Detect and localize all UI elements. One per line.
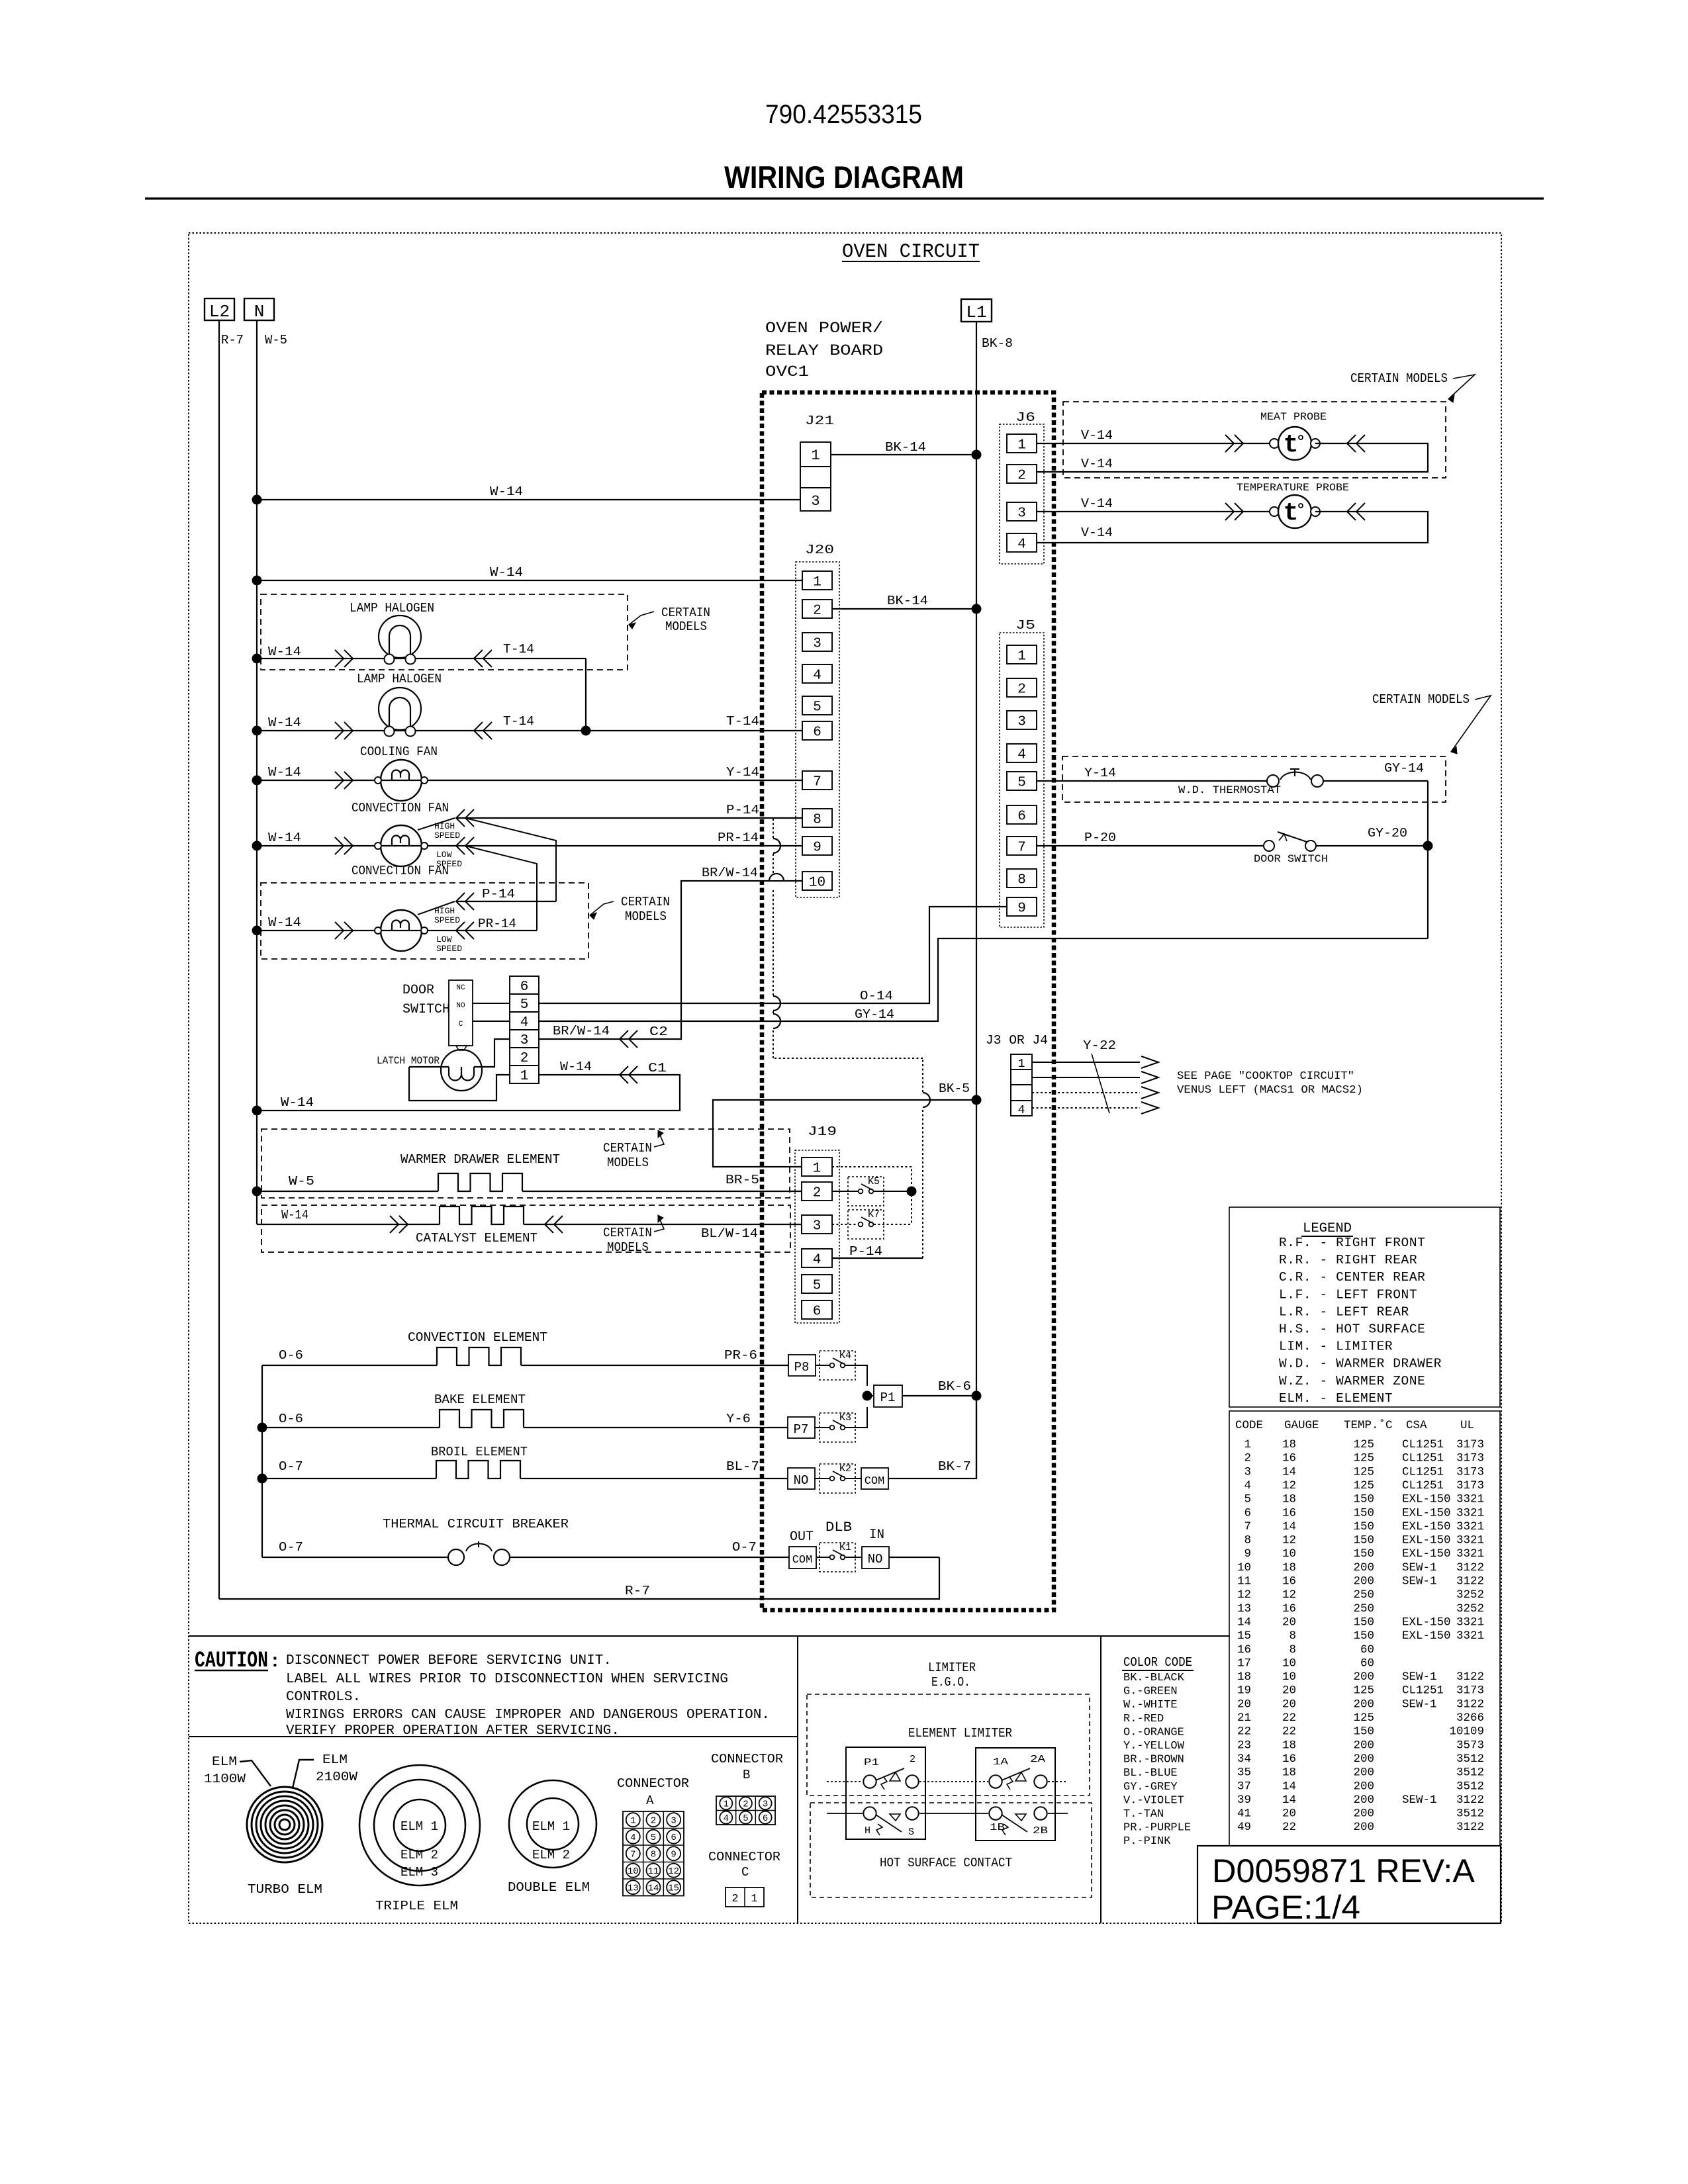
svg-text:P-14: P-14 bbox=[482, 887, 515, 901]
document number box bbox=[1197, 1846, 1501, 1923]
svg-text:125: 125 bbox=[1353, 1438, 1374, 1451]
svg-text:SWITCH: SWITCH bbox=[402, 1002, 450, 1017]
svg-text:35: 35 bbox=[1237, 1766, 1251, 1780]
svg-text:NO: NO bbox=[794, 1473, 809, 1488]
svg-text:1: 1 bbox=[1017, 438, 1026, 453]
svg-text:t: t bbox=[1284, 431, 1299, 459]
svg-text:COM: COM bbox=[792, 1554, 813, 1567]
svg-text:J21: J21 bbox=[805, 414, 834, 428]
node L2 bbox=[205, 298, 234, 320]
svg-text:P1: P1 bbox=[864, 1757, 879, 1768]
svg-text:3122: 3122 bbox=[1456, 1670, 1484, 1684]
svg-text:D0059871 REV:A: D0059871 REV:A bbox=[1212, 1852, 1476, 1889]
svg-text:3321: 3321 bbox=[1456, 1520, 1484, 1533]
connector J20 pin 8 bbox=[802, 809, 832, 827]
wire L1 BK-8 vertical bbox=[976, 322, 977, 1479]
connector J20 pin 6 bbox=[802, 721, 832, 740]
junction bake on feeder bbox=[258, 1423, 267, 1433]
svg-text:6: 6 bbox=[813, 725, 821, 741]
svg-text:BROIL ELEMENT: BROIL ELEMENT bbox=[431, 1445, 528, 1459]
svg-text:6: 6 bbox=[763, 1813, 768, 1824]
wire BK-6 P1 to L1 bbox=[902, 1395, 976, 1396]
svg-text:9: 9 bbox=[1017, 901, 1026, 917]
svg-text:4: 4 bbox=[813, 1253, 821, 1268]
svg-text:BR.-BROWN: BR.-BROWN bbox=[1123, 1754, 1184, 1766]
chevron connector T-14 lamp 1 bbox=[474, 650, 483, 667]
svg-text:SPEED: SPEED bbox=[434, 831, 460, 841]
svg-text:SEW-1: SEW-1 bbox=[1402, 1794, 1437, 1807]
chevron connector cooling fan bbox=[335, 772, 344, 789]
junction W-14 on N bbox=[252, 654, 262, 664]
svg-text:DISCONNECT POWER BEFORE SERVIC: DISCONNECT POWER BEFORE SERVICING UNIT. bbox=[286, 1653, 612, 1668]
connector J19 pin 5 bbox=[802, 1275, 832, 1293]
svg-text:K1: K1 bbox=[839, 1542, 851, 1553]
svg-text:2A: 2A bbox=[1030, 1754, 1045, 1765]
svg-text:SEW-1: SEW-1 bbox=[1402, 1561, 1437, 1574]
door switch body box bbox=[449, 980, 473, 1046]
svg-text:BK-6: BK-6 bbox=[938, 1379, 971, 1394]
svg-text:2: 2 bbox=[910, 1754, 915, 1765]
svg-text:GY-14: GY-14 bbox=[855, 1007, 894, 1022]
junction W-14 return on N bbox=[252, 1106, 262, 1116]
svg-text:11: 11 bbox=[648, 1866, 659, 1877]
svg-text:NC: NC bbox=[456, 984, 465, 992]
svg-text:NO: NO bbox=[868, 1552, 883, 1567]
svg-text:200: 200 bbox=[1353, 1780, 1374, 1793]
svg-text:19: 19 bbox=[1237, 1684, 1251, 1698]
svg-text:O-6: O-6 bbox=[279, 1412, 303, 1426]
svg-text:L1: L1 bbox=[966, 302, 986, 322]
svg-text:10109: 10109 bbox=[1449, 1725, 1484, 1739]
junction W-14 on N bbox=[252, 776, 262, 786]
svg-text:HIGH: HIGH bbox=[434, 821, 455, 831]
svg-text:8: 8 bbox=[1244, 1534, 1251, 1547]
svg-text:150: 150 bbox=[1353, 1629, 1374, 1643]
wire high speed tap fan 2 bbox=[418, 901, 455, 915]
svg-text:8: 8 bbox=[1017, 873, 1026, 888]
svg-text:1: 1 bbox=[1017, 649, 1026, 664]
svg-text:CL1251: CL1251 bbox=[1402, 1438, 1444, 1451]
svg-text:2100W: 2100W bbox=[316, 1770, 358, 1784]
svg-text:R.R. - RIGHT REAR: R.R. - RIGHT REAR bbox=[1279, 1253, 1417, 1267]
svg-text:10: 10 bbox=[1282, 1670, 1296, 1684]
svg-text:W.D. - WARMER DRAWER: W.D. - WARMER DRAWER bbox=[1279, 1357, 1442, 1371]
svg-text:3573: 3573 bbox=[1456, 1739, 1484, 1752]
svg-text:Y.-YELLOW: Y.-YELLOW bbox=[1123, 1740, 1185, 1752]
svg-text:18: 18 bbox=[1282, 1438, 1296, 1451]
svg-text:3: 3 bbox=[1017, 506, 1026, 522]
svg-text:W-14: W-14 bbox=[281, 1095, 314, 1110]
wire W-14 from N to J20 pin 1 bbox=[257, 580, 802, 581]
svg-text:22: 22 bbox=[1282, 1821, 1296, 1834]
svg-text:6: 6 bbox=[671, 1833, 676, 1843]
svg-text:PR-6: PR-6 bbox=[724, 1348, 757, 1363]
junction W-14 on N bbox=[252, 726, 262, 736]
wire BK-5 J19 pin 1 to L1 bbox=[713, 1100, 976, 1167]
svg-text:2: 2 bbox=[1244, 1452, 1251, 1465]
wire latch motor left terminal bbox=[409, 1066, 449, 1068]
svg-text:200: 200 bbox=[1353, 1794, 1374, 1807]
svg-text:CONNECTOR: CONNECTOR bbox=[708, 1850, 780, 1864]
svg-text:3: 3 bbox=[520, 1033, 529, 1048]
svg-text:CERTAIN: CERTAIN bbox=[661, 606, 710, 620]
junction W-14 on N bbox=[252, 495, 262, 505]
svg-text:J19: J19 bbox=[808, 1124, 837, 1139]
wire K5 output to node bbox=[874, 1191, 912, 1192]
certain models dashed box meat probe bbox=[1063, 402, 1446, 478]
svg-text:22: 22 bbox=[1282, 1711, 1296, 1725]
svg-text:GY.-GREY: GY.-GREY bbox=[1123, 1781, 1178, 1794]
svg-text:IN: IN bbox=[869, 1527, 884, 1543]
wire BK-14 from J20 pin 2 to L1 bbox=[832, 608, 976, 610]
svg-text:CONTROLS.: CONTROLS. bbox=[286, 1690, 361, 1705]
svg-text:CL1251: CL1251 bbox=[1402, 1479, 1444, 1492]
svg-text:J20: J20 bbox=[805, 543, 834, 557]
svg-text:1: 1 bbox=[1018, 1058, 1025, 1071]
svg-text:4: 4 bbox=[1244, 1479, 1251, 1492]
svg-text:150: 150 bbox=[1353, 1615, 1374, 1629]
svg-text:790.42553315: 790.42553315 bbox=[765, 100, 922, 129]
junction T-14 lines join bbox=[581, 726, 591, 736]
svg-text:W.-WHITE: W.-WHITE bbox=[1123, 1699, 1178, 1711]
wire V-14 meat probe return to J6 pin 2 bbox=[1037, 443, 1428, 472]
svg-text:LIMITER: LIMITER bbox=[928, 1661, 976, 1675]
svg-text:P.-PINK: P.-PINK bbox=[1123, 1835, 1171, 1848]
svg-text:OVC1: OVC1 bbox=[765, 363, 809, 381]
svg-text:V.-VIOLET: V.-VIOLET bbox=[1123, 1794, 1184, 1807]
certain models dashed box catalyst bbox=[261, 1205, 790, 1252]
svg-text:22: 22 bbox=[1237, 1725, 1251, 1739]
svg-text:3: 3 bbox=[813, 1219, 821, 1234]
svg-text:3321: 3321 bbox=[1456, 1615, 1484, 1629]
svg-text:37: 37 bbox=[1237, 1780, 1251, 1793]
svg-text:14: 14 bbox=[1237, 1615, 1251, 1629]
svg-text:4: 4 bbox=[724, 1813, 729, 1824]
svg-text:3173: 3173 bbox=[1456, 1465, 1484, 1479]
svg-text:WIRINGS ERRORS CAN CAUSE IMPRO: WIRINGS ERRORS CAN CAUSE IMPROPER AND DA… bbox=[286, 1707, 770, 1723]
svg-text:8: 8 bbox=[651, 1850, 656, 1860]
svg-text:39: 39 bbox=[1237, 1794, 1251, 1807]
svg-text:TRIPLE ELM: TRIPLE ELM bbox=[375, 1899, 458, 1913]
svg-text:3: 3 bbox=[763, 1799, 768, 1810]
svg-text:2: 2 bbox=[813, 604, 821, 619]
svg-text:ELM 2: ELM 2 bbox=[532, 1848, 570, 1862]
svg-text:16: 16 bbox=[1282, 1752, 1296, 1766]
svg-text:CODE: CODE bbox=[1235, 1419, 1263, 1432]
svg-text:TEMP.˚C: TEMP.˚C bbox=[1344, 1418, 1393, 1432]
svg-text:MODELS: MODELS bbox=[607, 1240, 649, 1255]
svg-text:LATCH MOTOR: LATCH MOTOR bbox=[377, 1055, 440, 1067]
svg-text:200: 200 bbox=[1353, 1575, 1374, 1588]
svg-text:BK-14: BK-14 bbox=[885, 440, 926, 455]
junction BK-14 on L1 bbox=[972, 604, 982, 614]
chevron connector convection fan 2 bbox=[335, 922, 344, 939]
svg-text:PR-14: PR-14 bbox=[478, 917, 516, 931]
thermal circuit breaker symbol bbox=[448, 1549, 464, 1565]
svg-text:200: 200 bbox=[1353, 1807, 1374, 1821]
svg-text:BAKE ELEMENT: BAKE ELEMENT bbox=[434, 1392, 526, 1407]
svg-text:12: 12 bbox=[668, 1866, 679, 1877]
svg-text:9: 9 bbox=[813, 841, 821, 856]
svg-text:EXL-150: EXL-150 bbox=[1402, 1520, 1451, 1533]
svg-text:125: 125 bbox=[1353, 1684, 1374, 1698]
svg-text:18: 18 bbox=[1282, 1766, 1296, 1780]
wire W-14 cooling fan line to J20 pin 7 Y-14 bbox=[257, 780, 802, 781]
wire W-5 warmer drawer element to J19 pin 2 bbox=[257, 1191, 438, 1192]
svg-text:3122: 3122 bbox=[1456, 1575, 1484, 1588]
svg-text:PR.-PURPLE: PR.-PURPLE bbox=[1123, 1822, 1191, 1835]
wire Y-14 J5 pin 5 to thermostat bbox=[1037, 780, 1267, 782]
section divider vertical left bbox=[797, 1636, 798, 1923]
wire W-14 catalyst element to J19 pin 3 bbox=[257, 1224, 440, 1225]
svg-text:1: 1 bbox=[811, 447, 820, 464]
wire V-14 temperature probe return to J6 pin 4 bbox=[1037, 512, 1428, 543]
meat probe symbol bbox=[1270, 439, 1279, 448]
section divider horizontal bbox=[189, 1635, 1229, 1637]
svg-text:EXL-150: EXL-150 bbox=[1402, 1629, 1451, 1643]
svg-text:CERTAIN MODELS: CERTAIN MODELS bbox=[1350, 371, 1448, 386]
svg-text:14: 14 bbox=[648, 1884, 659, 1894]
svg-text:EXL-150: EXL-150 bbox=[1402, 1615, 1451, 1629]
svg-text:2B: 2B bbox=[1033, 1825, 1048, 1837]
svg-text:SPEED: SPEED bbox=[436, 944, 462, 954]
svg-text:C2: C2 bbox=[649, 1024, 668, 1039]
wire W-14 C1 from pin 1 return to N bbox=[257, 1075, 680, 1111]
svg-text:MODELS: MODELS bbox=[607, 1156, 649, 1170]
svg-text:R-7: R-7 bbox=[221, 333, 244, 347]
svg-text:CERTAIN: CERTAIN bbox=[621, 895, 670, 909]
svg-text:E.G.O.: E.G.O. bbox=[931, 1675, 970, 1690]
junction BK-6 on L1 bbox=[972, 1391, 982, 1401]
svg-text:4: 4 bbox=[813, 668, 821, 684]
OVC1 board dashed border bbox=[762, 392, 1054, 1610]
svg-text:60: 60 bbox=[1360, 1643, 1374, 1657]
svg-text:BR/W-14: BR/W-14 bbox=[702, 866, 758, 880]
svg-text:BK-7: BK-7 bbox=[938, 1459, 971, 1474]
wire N W-5 vertical bbox=[256, 320, 258, 1224]
svg-text:W-14: W-14 bbox=[490, 484, 523, 499]
relay K4 bbox=[816, 1365, 829, 1366]
svg-text:THERMAL CIRCUIT BREAKER: THERMAL CIRCUIT BREAKER bbox=[383, 1517, 569, 1531]
svg-text:CL1251: CL1251 bbox=[1402, 1465, 1444, 1479]
junction relay node bbox=[907, 1187, 917, 1197]
svg-text:V-14: V-14 bbox=[1081, 457, 1113, 471]
svg-text:BL.-BLUE: BL.-BLUE bbox=[1123, 1767, 1178, 1780]
svg-text:1B: 1B bbox=[990, 1822, 1005, 1833]
svg-text:P-14: P-14 bbox=[726, 803, 759, 817]
svg-text:MODELS: MODELS bbox=[625, 909, 667, 924]
svg-text:200: 200 bbox=[1353, 1670, 1374, 1684]
wire latch motor right terminal to pin 3 bbox=[474, 1039, 510, 1067]
svg-text:OVEN CIRCUIT: OVEN CIRCUIT bbox=[842, 241, 980, 263]
limiter switch box left bbox=[846, 1747, 925, 1839]
svg-text:Y-14: Y-14 bbox=[726, 765, 759, 780]
svg-text:SEW-1: SEW-1 bbox=[1402, 1670, 1437, 1684]
svg-text:41: 41 bbox=[1237, 1807, 1251, 1821]
connector J5 pin 9 bbox=[1007, 897, 1037, 916]
svg-text:T-14: T-14 bbox=[503, 642, 534, 657]
wire high speed tap to P-14 bbox=[418, 818, 455, 830]
svg-text:O-7: O-7 bbox=[732, 1540, 757, 1555]
svg-text:UL: UL bbox=[1460, 1419, 1474, 1432]
svg-text:3252: 3252 bbox=[1456, 1588, 1484, 1602]
svg-text:O-6: O-6 bbox=[279, 1348, 303, 1363]
svg-text:9: 9 bbox=[671, 1850, 676, 1860]
svg-text:W-14: W-14 bbox=[268, 765, 301, 780]
svg-text::: : bbox=[269, 1652, 281, 1672]
svg-text:W.Z. - WARMER ZONE: W.Z. - WARMER ZONE bbox=[1279, 1374, 1425, 1388]
svg-text:GY-14: GY-14 bbox=[1384, 761, 1424, 776]
junction W-14 on N bbox=[252, 926, 262, 936]
svg-text:COM: COM bbox=[865, 1475, 885, 1488]
svg-text:BR/W-14: BR/W-14 bbox=[553, 1024, 610, 1038]
connector J19 pin 6 bbox=[802, 1300, 832, 1319]
svg-text:200: 200 bbox=[1353, 1561, 1374, 1574]
connector J6 pin 4 bbox=[1007, 533, 1037, 552]
wire gauge code table box bbox=[1229, 1411, 1500, 1846]
svg-text:4: 4 bbox=[1018, 1104, 1025, 1117]
svg-text:23: 23 bbox=[1237, 1739, 1251, 1752]
svg-text:7: 7 bbox=[1017, 841, 1026, 856]
terminal COM (broil) bbox=[861, 1468, 888, 1489]
svg-text:18: 18 bbox=[1237, 1670, 1251, 1684]
svg-text:L.F. - LEFT FRONT: L.F. - LEFT FRONT bbox=[1279, 1287, 1417, 1302]
relay terminal NO (broil) bbox=[788, 1468, 815, 1489]
svg-text:150: 150 bbox=[1353, 1493, 1374, 1506]
relay terminal P7 bbox=[788, 1417, 815, 1438]
svg-text:5: 5 bbox=[813, 700, 821, 715]
wire GY-14 from door pin 4 to right side bbox=[539, 938, 1428, 1021]
svg-text:K3: K3 bbox=[839, 1412, 851, 1424]
wire W-14 lamp 1 line bbox=[257, 658, 586, 659]
svg-text:3: 3 bbox=[813, 637, 821, 652]
svg-text:7: 7 bbox=[1244, 1520, 1251, 1533]
wire BK-14 from J21 pin 1 to L1 bbox=[831, 454, 976, 455]
wire K1 to NO bbox=[845, 1557, 862, 1558]
wire P-20 J5 pin 7 to door switch bbox=[1037, 845, 1264, 846]
svg-text:COOLING FAN: COOLING FAN bbox=[360, 745, 438, 759]
svg-text:t: t bbox=[1284, 499, 1299, 527]
hop over certain-models wire on BR/W-14 bbox=[769, 875, 784, 880]
svg-text:8: 8 bbox=[1289, 1643, 1296, 1657]
double element rings bbox=[509, 1780, 596, 1868]
connector J6 pin 3 bbox=[1007, 502, 1037, 521]
svg-text:LAMP HALOGEN: LAMP HALOGEN bbox=[350, 601, 434, 615]
svg-text:5: 5 bbox=[651, 1833, 656, 1843]
svg-text:BK-8: BK-8 bbox=[982, 336, 1013, 351]
svg-text:G.-GREEN: G.-GREEN bbox=[1123, 1686, 1178, 1698]
connector J20 pin 10 bbox=[802, 872, 832, 890]
svg-text:4: 4 bbox=[1017, 537, 1026, 553]
junction W-14 on N bbox=[252, 841, 262, 851]
svg-text:22: 22 bbox=[1282, 1725, 1296, 1739]
connector J19 pin 4 bbox=[802, 1249, 832, 1267]
svg-text:BR-5: BR-5 bbox=[726, 1173, 759, 1187]
svg-text:49: 49 bbox=[1237, 1821, 1251, 1834]
svg-text:20: 20 bbox=[1282, 1807, 1296, 1821]
svg-text:10: 10 bbox=[1282, 1657, 1296, 1670]
svg-text:W-14: W-14 bbox=[268, 715, 301, 730]
svg-text:CERTAIN: CERTAIN bbox=[603, 1141, 652, 1156]
connector J19 pin 1 bbox=[802, 1158, 832, 1176]
catalyst element resistor bbox=[440, 1206, 524, 1224]
certain models dashed box lamp halogen bbox=[261, 594, 628, 670]
svg-text:C: C bbox=[741, 1865, 749, 1880]
svg-text:EXL-150: EXL-150 bbox=[1402, 1493, 1451, 1506]
latch motor symbol bbox=[441, 1050, 482, 1091]
svg-text:CONNECTOR: CONNECTOR bbox=[711, 1752, 783, 1766]
wire O-14 from door pin 5 to J5 pin 9 bbox=[539, 907, 1007, 1003]
svg-text:O-7: O-7 bbox=[279, 1540, 303, 1555]
svg-text:150: 150 bbox=[1353, 1534, 1374, 1547]
svg-text:3: 3 bbox=[671, 1816, 676, 1827]
chevron connector T-14 lamp 2 bbox=[474, 722, 483, 739]
svg-text:3: 3 bbox=[1244, 1465, 1251, 1479]
certain models dashed box W.D. thermostat bbox=[1062, 756, 1446, 802]
wire O-6 convection element to P8 bbox=[262, 1365, 437, 1366]
svg-text:16: 16 bbox=[1237, 1643, 1251, 1657]
lamp halogen 2 symbol bbox=[379, 688, 421, 730]
svg-text:3122: 3122 bbox=[1456, 1698, 1484, 1711]
svg-text:1: 1 bbox=[751, 1893, 757, 1905]
svg-text:3321: 3321 bbox=[1456, 1534, 1484, 1547]
svg-text:EXL-150: EXL-150 bbox=[1402, 1534, 1451, 1547]
relay K7 (certain models) bbox=[832, 1224, 859, 1225]
wire BR-W-14 C2 from pin 3 up to J20 pin 10 bbox=[539, 881, 802, 1039]
svg-text:K2: K2 bbox=[839, 1463, 851, 1475]
svg-text:RELAY BOARD: RELAY BOARD bbox=[765, 342, 883, 359]
svg-text:16: 16 bbox=[1282, 1506, 1296, 1520]
svg-text:3173: 3173 bbox=[1456, 1479, 1484, 1492]
svg-text:12: 12 bbox=[1237, 1588, 1251, 1602]
W.D. thermostat symbol bbox=[1267, 775, 1279, 787]
svg-text:200: 200 bbox=[1353, 1821, 1374, 1834]
svg-text:CONVECTION FAN: CONVECTION FAN bbox=[352, 864, 449, 878]
connector B grid bbox=[716, 1796, 775, 1825]
svg-text:C.R. - CENTER REAR: C.R. - CENTER REAR bbox=[1279, 1270, 1425, 1285]
svg-text:BL/W-14: BL/W-14 bbox=[701, 1226, 758, 1241]
svg-text:20: 20 bbox=[1237, 1698, 1251, 1711]
wire J3/J4 pin 4 out with arrow (dotted) bbox=[1032, 1107, 1140, 1109]
svg-text:MODELS: MODELS bbox=[665, 619, 707, 634]
svg-text:P1: P1 bbox=[880, 1390, 896, 1405]
wire W-14 from N to J21 pin 3 bbox=[257, 499, 800, 500]
terminal NO (DLB) bbox=[862, 1547, 889, 1569]
svg-text:W-14: W-14 bbox=[560, 1060, 592, 1074]
svg-text:3512: 3512 bbox=[1456, 1766, 1484, 1780]
svg-text:3512: 3512 bbox=[1456, 1807, 1484, 1821]
svg-text:18: 18 bbox=[1282, 1739, 1296, 1752]
wire P-14 to J20 pin 8 bbox=[456, 817, 802, 819]
svg-text:O-14: O-14 bbox=[860, 989, 893, 1003]
svg-text:12: 12 bbox=[1282, 1588, 1296, 1602]
svg-text:3: 3 bbox=[811, 493, 820, 510]
svg-text:ELM 2: ELM 2 bbox=[400, 1848, 438, 1862]
svg-text:5: 5 bbox=[743, 1813, 748, 1824]
wire T-14 lamp1 drop to lamp2 line bbox=[585, 659, 586, 731]
node L1 bbox=[961, 299, 992, 322]
svg-text:V-14: V-14 bbox=[1081, 525, 1113, 540]
relay K1 DLB bbox=[816, 1557, 829, 1558]
svg-text:10: 10 bbox=[1237, 1561, 1251, 1574]
wire J3/J4 pin 3 out with arrow (dotted) bbox=[1032, 1092, 1140, 1093]
svg-text:LEGEND: LEGEND bbox=[1303, 1221, 1352, 1236]
svg-text:150: 150 bbox=[1353, 1725, 1374, 1739]
svg-text:W-14: W-14 bbox=[268, 645, 301, 659]
svg-text:VENUS LEFT (MACS1 OR MACS2): VENUS LEFT (MACS1 OR MACS2) bbox=[1177, 1084, 1363, 1097]
svg-text:HOT SURFACE CONTACT: HOT SURFACE CONTACT bbox=[880, 1856, 1012, 1870]
svg-text:SEE PAGE "COOKTOP CIRCUIT": SEE PAGE "COOKTOP CIRCUIT" bbox=[1177, 1070, 1354, 1083]
